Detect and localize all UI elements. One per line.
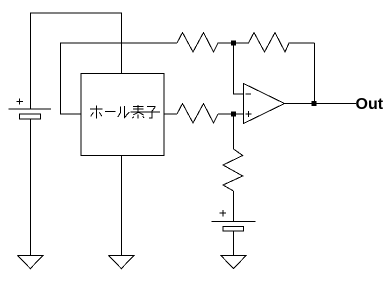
glyph ho — [90, 106, 102, 119]
wire op-amp output to Out — [285, 103, 357, 105]
glyph long vowel bar — [105, 111, 116, 113]
wire hall box left pin to feedback line — [61, 43, 178, 114]
wire battery B1 top to hall box top — [31, 13, 122, 109]
label ホール素子 (drawn as strokes) — [90, 105, 160, 119]
battery B2 plus sign — [220, 210, 226, 216]
wire R3 to op-amp non-inverting input — [218, 113, 244, 115]
wire battery B2 to ground — [233, 231, 235, 255]
resistor R4 — [223, 149, 243, 191]
resistor R1 — [177, 33, 234, 53]
ground under battery B2 — [221, 256, 246, 269]
hall element box — [81, 73, 164, 155]
op-amp U1 plus sign — [246, 111, 252, 117]
glyph so (素) — [131, 105, 146, 119]
battery B2 negative plate — [223, 226, 244, 231]
op-amp U1 minus sign — [246, 93, 252, 95]
wire R2 right lead down to output node — [314, 43, 316, 104]
battery B1 positive plate — [9, 108, 51, 110]
battery B2 positive plate — [212, 220, 256, 222]
wire battery B1 to ground — [30, 119, 32, 255]
wire R4 to battery B2 — [233, 191, 235, 221]
output node junction dot — [312, 101, 317, 106]
resistor R2 — [234, 33, 315, 53]
ground under battery B1 — [18, 256, 43, 269]
battery B1 negative plate — [19, 114, 40, 119]
battery B1 plus sign — [17, 98, 23, 104]
wire inverting input from node A — [234, 43, 244, 94]
op-amp U1 — [244, 84, 285, 124]
wire hall box bottom pin to ground — [120, 156, 122, 256]
glyph shi (子) — [145, 107, 160, 119]
node A junction dot — [231, 41, 236, 46]
svg-text:Out: Out — [356, 96, 384, 113]
node B junction dot — [231, 112, 236, 117]
wire hall box right pin to R3 — [164, 113, 177, 115]
wire node B down to R4 — [233, 114, 235, 149]
glyph ru — [118, 106, 130, 117]
resistor R3 — [177, 104, 218, 124]
ground under hall box — [109, 256, 134, 269]
